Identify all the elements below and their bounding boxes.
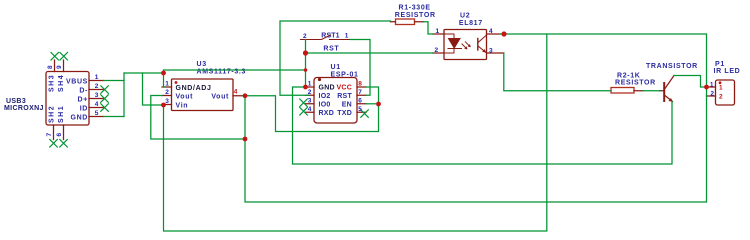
svg-text:SH4: SH4 <box>58 74 65 92</box>
U2 internal LED <box>444 34 454 53</box>
svg-text:4: 4 <box>95 101 99 108</box>
wire R2 to transistor base <box>643 90 660 92</box>
wire junction down to U3 pin1 <box>164 73 166 87</box>
svg-text:5: 5 <box>358 106 362 113</box>
svg-text:6: 6 <box>358 97 362 104</box>
svg-text:D-: D- <box>79 88 88 95</box>
svg-text:2: 2 <box>435 47 439 54</box>
junction at VBUS/U3 pin1 <box>161 71 166 76</box>
no-connect X pin 7 <box>50 140 58 148</box>
junction at U3 Vin <box>161 103 166 108</box>
wire U3 Vin down to bottom rail y231 <box>164 34 547 231</box>
resistor R2-1K <box>611 88 664 94</box>
svg-text:IR LED: IR LED <box>714 68 741 75</box>
header P1 IR LED <box>707 80 735 105</box>
no-connect X pin 4 ID <box>101 104 109 112</box>
svg-text:1: 1 <box>719 85 723 92</box>
wire U3 Vin feed riser x142.5 <box>143 73 164 105</box>
wire collector to P1 pin1 junction <box>674 76 707 88</box>
svg-text:SH3: SH3 <box>49 74 56 92</box>
svg-text:U2: U2 <box>460 13 470 20</box>
junction at y70 <box>304 68 308 72</box>
wire U3 Vout pin4 to rail y202 <box>242 34 707 202</box>
USB3 pin names <box>49 74 89 123</box>
wire RST1 pin1 to U1 pin7 <box>351 40 371 96</box>
svg-text:2: 2 <box>165 89 169 96</box>
svg-text:3: 3 <box>165 98 169 105</box>
svg-text:RESISTOR: RESISTOR <box>395 12 436 19</box>
wire switch vertical x305.5 <box>305 40 307 88</box>
U3 pin1 marker dot <box>175 81 178 84</box>
svg-text:TXD: TXD <box>337 110 352 117</box>
svg-text:ID: ID <box>80 106 88 113</box>
svg-text:RST: RST <box>323 46 339 53</box>
svg-text:P1: P1 <box>715 61 725 68</box>
svg-text:GND: GND <box>70 115 88 122</box>
svg-text:1: 1 <box>165 81 169 88</box>
svg-text:ESP-01: ESP-01 <box>331 72 359 79</box>
svg-text:4: 4 <box>234 88 238 95</box>
USB3 pin 8 stub top <box>54 60 56 72</box>
svg-text:U1: U1 <box>331 64 341 71</box>
svg-text:U3: U3 <box>197 61 207 68</box>
reset jumper RST1 <box>301 35 351 40</box>
no-connect X U1 pin 5 TXD <box>361 110 369 118</box>
no-connect X pin 8 <box>51 53 59 61</box>
svg-text:Vout: Vout <box>211 94 229 101</box>
svg-text:D+: D+ <box>78 97 88 104</box>
transistor Q1 <box>664 76 674 102</box>
svg-text:VCC: VCC <box>336 85 352 92</box>
svg-text:1: 1 <box>710 82 714 89</box>
no-connect X pin 2 D- <box>101 86 109 94</box>
svg-text:1: 1 <box>345 33 349 40</box>
ESP-01 module U1 <box>300 78 369 124</box>
optocoupler U2 EL817 <box>433 30 504 60</box>
wire RST net y53 <box>306 52 433 54</box>
U1 pin1 marker dot <box>318 78 321 81</box>
svg-text:8: 8 <box>47 65 54 69</box>
svg-text:8: 8 <box>358 81 362 88</box>
U2 light arrows <box>462 42 470 49</box>
wire U3 pin2 Vout loop <box>151 96 245 140</box>
wire U1 pin8 VCC to EN <box>245 87 379 132</box>
svg-text:1: 1 <box>95 74 99 81</box>
svg-text:7: 7 <box>46 133 53 137</box>
svg-text:TRANSISTOR: TRANSISTOR <box>646 63 698 70</box>
svg-text:RESISTOR: RESISTOR <box>615 80 656 87</box>
wire U1 pin2 IO2 riser to R1 <box>280 21 391 95</box>
wire U2 pin4 to junction <box>500 33 504 35</box>
wire VBUS pin1 to riser <box>104 80 125 82</box>
svg-text:SH2: SH2 <box>49 105 56 123</box>
svg-text:RST1: RST1 <box>321 33 339 40</box>
svg-text:5: 5 <box>95 110 99 117</box>
USB3 pin 9 stub top <box>63 60 65 72</box>
wire R1 to U2 pin1 <box>424 22 433 34</box>
svg-text:1: 1 <box>436 28 440 35</box>
wire top y73 to junction <box>124 72 164 74</box>
no-connect X pin 6 <box>60 140 68 148</box>
svg-text:4: 4 <box>489 28 493 35</box>
svg-text:IO2: IO2 <box>319 93 331 100</box>
svg-text:GND/ADJ: GND/ADJ <box>176 85 212 92</box>
svg-text:SH1: SH1 <box>58 105 65 123</box>
svg-text:2: 2 <box>95 83 99 90</box>
svg-text:2: 2 <box>710 91 714 98</box>
svg-text:R1-330E: R1-330E <box>399 5 431 12</box>
svg-text:9: 9 <box>56 65 63 69</box>
no-connect X pin 9 <box>60 53 68 61</box>
svg-text:3: 3 <box>489 48 493 55</box>
P1 pin1 marker dot <box>719 81 722 84</box>
svg-text:MICROXNJ: MICROXNJ <box>4 105 44 112</box>
junction at U1 pin1 <box>303 85 308 90</box>
junction at U2 pin4 <box>501 31 506 36</box>
junction RST net <box>303 50 308 55</box>
wire U1 pin1 GND to bottom <box>293 87 673 164</box>
svg-text:USB3: USB3 <box>6 98 26 105</box>
no-connect X pin 3 D+ <box>101 95 109 103</box>
USB3 pin numbers <box>46 65 99 137</box>
junction at U1 pin6 EN <box>376 102 381 107</box>
no-connect X U1 pin 4 RXD <box>300 108 308 116</box>
svg-text:Vin: Vin <box>176 103 189 110</box>
junction at U3 Vout pin4 <box>243 93 248 98</box>
svg-text:7: 7 <box>358 89 362 96</box>
resistor R1-330E <box>391 19 424 25</box>
svg-text:3: 3 <box>308 97 312 104</box>
svg-text:6: 6 <box>56 133 63 137</box>
wire U2 pin3 down to R2 <box>504 53 611 91</box>
wire riser x124 <box>123 73 125 117</box>
junction at P1 pin1 <box>704 85 709 90</box>
USB3 pin 7 stub bottom <box>53 125 55 140</box>
wire GND pin5 link <box>104 116 125 118</box>
svg-text:1: 1 <box>308 81 312 88</box>
svg-text:R2-1K: R2-1K <box>617 73 640 80</box>
svg-text:EN: EN <box>342 102 352 109</box>
wire U1 pin6 EN stub <box>366 103 379 105</box>
svg-text:RST: RST <box>337 93 352 100</box>
no-connect X U1 pin 3 IO0 <box>300 99 308 107</box>
USB3 pin stubs 1-5 right <box>89 81 104 117</box>
U2 phototransistor <box>477 39 479 51</box>
connector USB3 MICROXNJ body <box>46 72 89 126</box>
junction at Vout rail y139 <box>243 137 248 142</box>
wire long horizontal y70 <box>164 70 306 73</box>
svg-text:RXD: RXD <box>319 110 335 117</box>
svg-text:GND: GND <box>319 85 335 92</box>
svg-text:Vout: Vout <box>176 94 194 101</box>
svg-text:2: 2 <box>719 94 723 101</box>
svg-text:IO0: IO0 <box>319 102 331 109</box>
USB3 pin 6 stub bottom <box>63 125 65 140</box>
svg-text:VBUS: VBUS <box>66 79 88 86</box>
svg-text:4: 4 <box>308 106 312 113</box>
svg-text:3: 3 <box>95 92 99 99</box>
regulator U3 AMS1117-3.3 <box>162 79 242 111</box>
svg-text:EL817: EL817 <box>459 20 483 27</box>
